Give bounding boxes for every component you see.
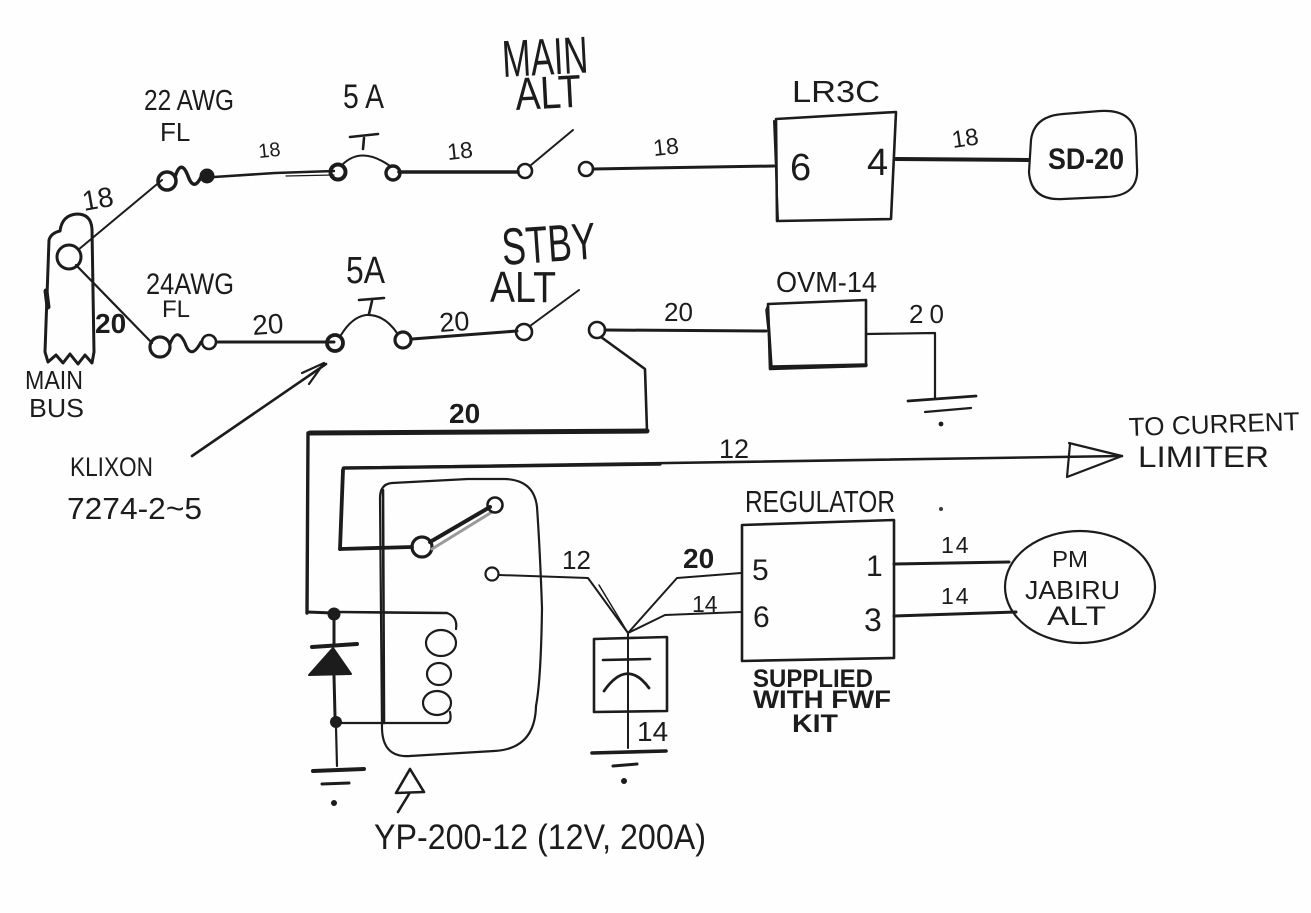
svg-text:14: 14 — [692, 591, 718, 617]
wire 20 node to regulator pin5 — [628, 573, 741, 633]
svg-text:KLIXON: KLIXON — [70, 452, 153, 482]
relay lever — [430, 507, 492, 549]
ground relay — [313, 769, 364, 806]
svg-text:14: 14 — [637, 716, 668, 747]
svg-text:20: 20 — [251, 308, 284, 341]
label MAIN ALT — [501, 27, 590, 120]
label MAIN BUS — [25, 365, 84, 423]
relay coil — [423, 613, 456, 723]
breaker CB2 5A — [327, 298, 411, 351]
regulator box — [742, 520, 894, 661]
wire 18 CB1 to switch S1 — [399, 170, 518, 174]
svg-text:14: 14 — [941, 583, 971, 609]
wire 14 node to regulator pin6 — [628, 612, 741, 633]
svg-text:22 AWG: 22 AWG — [144, 85, 234, 117]
svg-text:MAIN: MAIN — [25, 365, 83, 395]
relay aux terminal — [486, 568, 499, 581]
svg-text:TO CURRENT: TO CURRENT — [1128, 406, 1300, 442]
svg-text:18: 18 — [950, 123, 980, 153]
svg-text:PM: PM — [1052, 546, 1088, 572]
capacitor C1 box — [594, 633, 667, 748]
fusible link F2 24AWG — [150, 335, 216, 357]
wire 12 relay to current limiter — [340, 456, 1122, 549]
svg-text:14: 14 — [941, 532, 971, 558]
wire 20 feeder horizontal — [310, 431, 647, 433]
wire junction to coil top — [338, 612, 447, 613]
breaker CB1 5A — [331, 134, 401, 180]
arrow klixon — [192, 363, 326, 456]
svg-text:5A: 5A — [346, 250, 386, 292]
contactor YP-200-12 outline — [380, 479, 542, 756]
wire 20 OVM to ground — [866, 333, 935, 399]
wire junction to ground — [336, 727, 337, 766]
wire 18 F1 to breaker CB1 — [214, 171, 334, 177]
junction node bottom — [330, 716, 342, 728]
arrow to YP label — [396, 769, 424, 812]
wire 14 pin1 to alternator — [894, 562, 1009, 564]
svg-text:7274-2~5: 7274-2~5 — [67, 491, 202, 526]
wire 20 feeder vertical — [307, 433, 308, 613]
wire corner to junction — [307, 612, 333, 613]
svg-text:KIT: KIT — [792, 710, 838, 738]
regulator box LR3C — [774, 112, 896, 221]
wire 18 S1 to LR3C — [593, 166, 774, 169]
label 24AWG FL — [146, 268, 234, 323]
svg-text:12: 12 — [719, 434, 749, 464]
label SUPPLIED WITH FWF KIT — [753, 665, 891, 738]
diode D1 — [309, 620, 357, 716]
alternator PM JABIRU ALT — [1005, 531, 1155, 643]
svg-text:18: 18 — [257, 139, 281, 163]
wire S2 down to 20 feeder — [601, 337, 647, 431]
svg-text:4: 4 — [867, 142, 888, 184]
label 22 AWG FL — [144, 85, 234, 147]
svg-text:3: 3 — [864, 602, 882, 638]
svg-text:20: 20 — [449, 398, 480, 429]
svg-text:REGULATOR: REGULATOR — [745, 484, 895, 519]
svg-text:OVM-14: OVM-14 — [776, 267, 877, 299]
switch S2 STBY ALT — [516, 290, 605, 340]
label KLIXON 7274-2-5 — [67, 452, 202, 526]
svg-text:5 A: 5 A — [343, 78, 384, 116]
dynamo SD-20 — [1029, 111, 1137, 199]
svg-text:6: 6 — [790, 147, 811, 189]
wire 14 pin3 to alternator — [894, 612, 1016, 616]
wire 18 LR3C to SD-20 — [896, 159, 1028, 160]
svg-text:ALT: ALT — [490, 263, 556, 312]
switch S1 MAIN ALT — [518, 130, 593, 178]
svg-text:LR3C: LR3C — [792, 74, 880, 109]
svg-text:1: 1 — [866, 550, 883, 583]
wire 20 CB2 to switch S2 — [412, 331, 517, 339]
ground capacitor — [592, 751, 666, 784]
fusible link F1 22AWG — [158, 167, 213, 190]
ink speck — [939, 507, 943, 511]
ground OVM — [908, 396, 976, 426]
svg-text:20: 20 — [683, 543, 714, 574]
overvoltage module OVM-14 — [766, 300, 866, 369]
wire 20 bus to fuse F2 — [76, 265, 152, 343]
svg-text:FL: FL — [160, 117, 190, 147]
relay contact terminal — [488, 498, 503, 513]
svg-text:LIMITER: LIMITER — [1138, 441, 1269, 474]
arrowhead to current limiter — [1067, 443, 1122, 477]
wire 18 bus to fuse F1 — [78, 180, 162, 250]
wire 20 S2 to OVM-14 — [605, 330, 766, 331]
svg-text:6: 6 — [753, 601, 770, 634]
svg-text:12: 12 — [562, 545, 591, 575]
svg-text:18: 18 — [652, 132, 680, 161]
svg-text:FL: FL — [162, 296, 190, 323]
svg-text:BUS: BUS — [29, 393, 84, 423]
relay common terminal — [412, 537, 432, 557]
junction node top — [328, 608, 341, 621]
wire junction to coil bottom — [342, 722, 447, 724]
svg-text:ALT: ALT — [514, 65, 583, 120]
svg-text:20: 20 — [909, 299, 950, 329]
wire 12 aux to cap node — [499, 575, 628, 633]
label TO CURRENT LIMITER — [1128, 406, 1300, 474]
svg-text:20: 20 — [95, 308, 126, 339]
label STBY ALT — [490, 213, 598, 312]
svg-text:20: 20 — [438, 306, 470, 338]
svg-text:YP-200-12 (12V, 200A): YP-200-12 (12V, 200A) — [374, 818, 706, 857]
svg-text:ALT: ALT — [1047, 601, 1106, 631]
svg-text:18: 18 — [446, 136, 474, 165]
label PM JABIRU ALT — [1025, 546, 1120, 631]
main bus — [45, 214, 94, 364]
svg-text:5: 5 — [752, 554, 769, 587]
svg-text:18: 18 — [80, 181, 116, 217]
svg-text:SD-20: SD-20 — [1048, 143, 1124, 176]
svg-text:20: 20 — [664, 297, 693, 327]
wire 20 F2 to breaker CB2 — [217, 341, 334, 344]
